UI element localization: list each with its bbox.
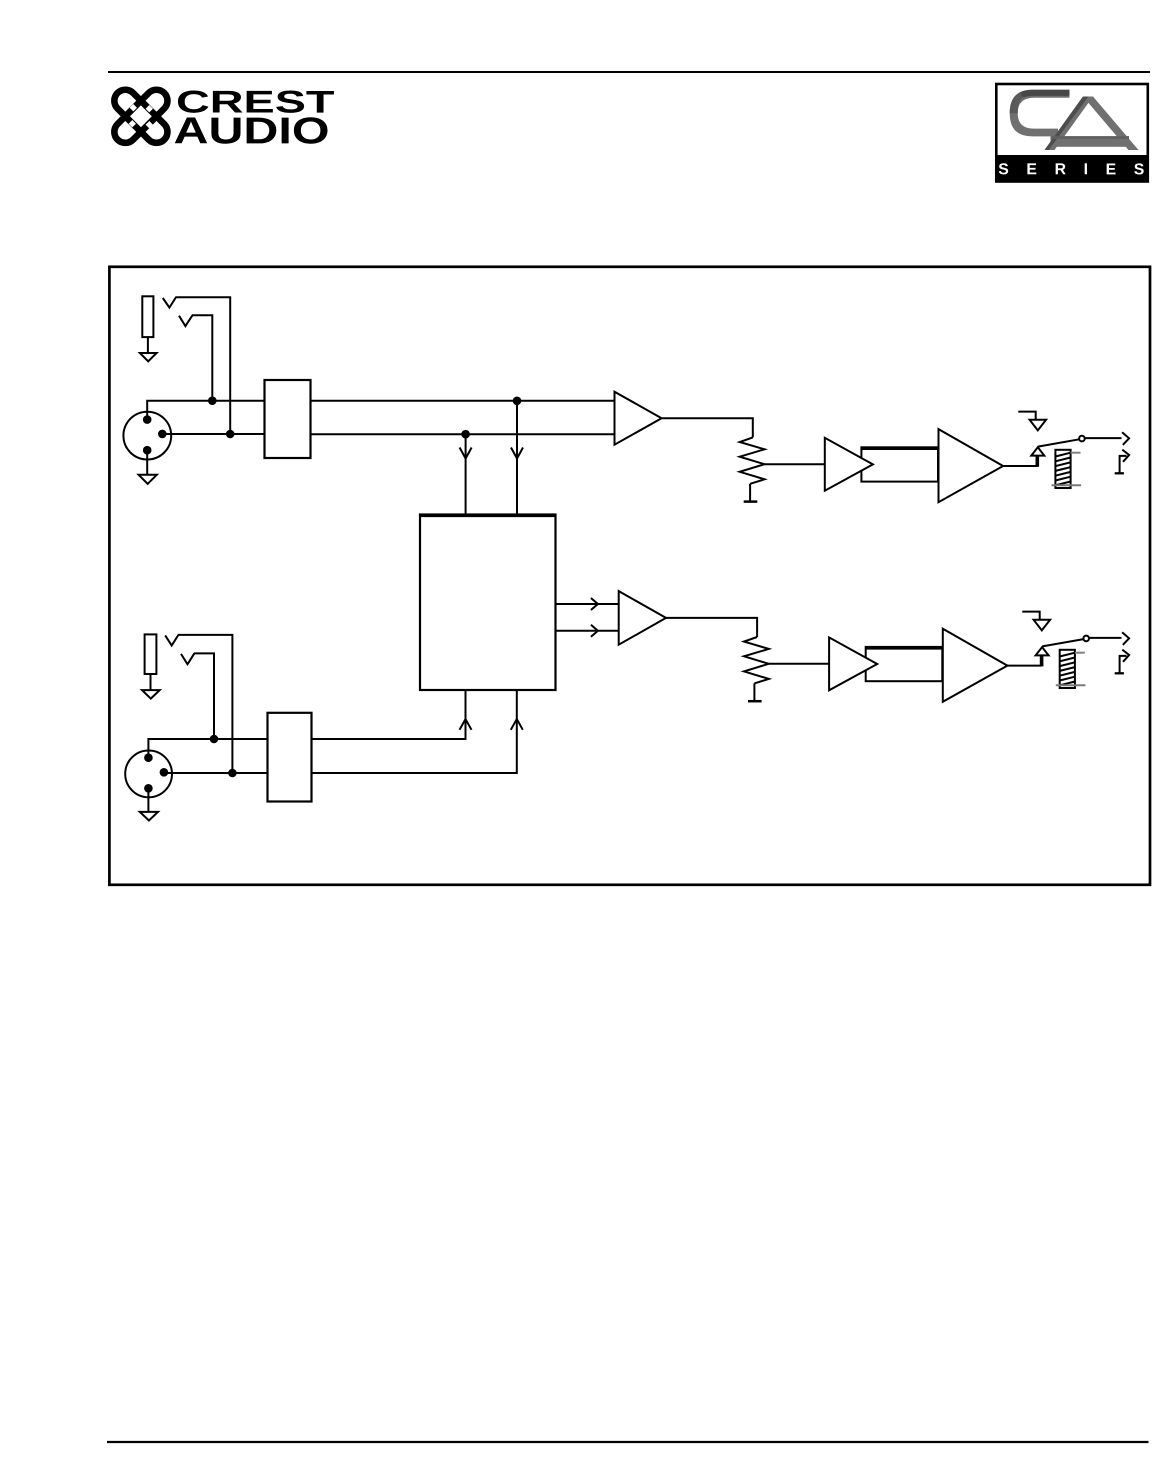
- badge border box: [996, 84, 1148, 182]
- header top rule: [108, 71, 1150, 73]
- wire switch to output: [1089, 637, 1122, 639]
- coil terminal bottom: [1052, 484, 1082, 486]
- CH2 buffer amp A5: [829, 637, 877, 690]
- wire ring contact to pin3 line: [192, 315, 212, 400]
- coil windings: [1060, 653, 1075, 686]
- R2 ground bar: [748, 700, 762, 703]
- arrowhead down: [511, 448, 523, 459]
- wire block to amp inverting: [311, 433, 615, 435]
- CH2 XLR ground: [140, 812, 158, 821]
- junction node: [513, 397, 522, 406]
- CH1 1/4 inch jack body J1: [142, 296, 153, 337]
- CH2 jack tip contact: [165, 635, 178, 645]
- CH1 XLR pin top: [143, 415, 152, 424]
- limiter top thick edge: [861, 447, 938, 450]
- CH1 jack ring contact: [179, 315, 193, 326]
- CH1 output arrow tip: [1122, 432, 1129, 445]
- wire block up to crossover: [312, 690, 517, 773]
- CH1 level potentiometer R1: [740, 437, 765, 483]
- arrowhead up: [460, 719, 472, 730]
- CH2 input amp A4: [619, 591, 666, 645]
- crossover top thick edge: [419, 514, 557, 517]
- output sleeve ground bar: [1115, 472, 1124, 474]
- arrowhead up: [511, 719, 523, 730]
- CH1 XLR pin right: [158, 430, 167, 439]
- CH1 input amp A1: [615, 392, 662, 445]
- switch contact circle: [1079, 436, 1085, 442]
- wire crossover out 2: [556, 630, 619, 632]
- wire ring contact to pin3 line: [194, 653, 214, 739]
- CA SERIES badge: [995, 84, 1149, 183]
- diagram outer border: [109, 267, 1150, 885]
- Crest Audio logo knot symbol: [110, 85, 172, 147]
- junction node: [228, 769, 237, 778]
- R1 ground stem: [749, 484, 751, 502]
- wire tip contact to pin2 line: [178, 635, 233, 773]
- badge black band: [995, 155, 1149, 183]
- wire wiper to buffer: [765, 463, 825, 465]
- CH1 jack stem wire: [147, 337, 149, 353]
- wire switch to output: [1085, 437, 1122, 439]
- coil terminal bottom: [1056, 684, 1086, 686]
- relay switch arm: [1038, 439, 1079, 446]
- svg-text:AUDIO: AUDIO: [173, 109, 329, 151]
- wire down to crossover block: [465, 434, 467, 514]
- wire wiper to buffer: [769, 663, 829, 665]
- wire amp out to level pot: [662, 418, 753, 437]
- CH2 jack ground: [142, 690, 160, 699]
- relay switch arm: [1042, 639, 1083, 646]
- CH1 output return arrow: [1122, 450, 1129, 462]
- CH2 limiter block: [866, 647, 943, 681]
- relay armature stem: [1036, 455, 1040, 466]
- badge CA letter C: [1010, 90, 1070, 137]
- wire crossover out 1: [556, 603, 619, 605]
- CH1 jack tip contact: [163, 298, 176, 308]
- CH2 output arrow tip: [1122, 632, 1129, 645]
- CH1 input block U1: [265, 380, 311, 458]
- badge CA letter A: [1045, 97, 1139, 151]
- wire XLR top pin to input block: [148, 739, 267, 758]
- output sleeve ground bar: [1115, 672, 1124, 674]
- wire tip contact to pin2 line: [175, 297, 230, 434]
- coil windings: [1055, 453, 1070, 486]
- wire XLR top pin to input block: [147, 401, 264, 420]
- CH1 XLR ground: [139, 475, 157, 484]
- CH2 jack ring contact: [181, 653, 194, 664]
- CH1 relay coil K1: [1055, 450, 1070, 488]
- CH1 buffer amp A2: [825, 438, 873, 491]
- junction node: [208, 396, 217, 405]
- CH2 jack stem wire: [150, 674, 152, 690]
- switch NC ground wire: [1022, 612, 1039, 620]
- wire XLR right pin to input block: [164, 772, 268, 774]
- junction node: [226, 430, 235, 439]
- wire XLR bottom pin to ground: [146, 450, 148, 475]
- CH2 XLR pin top: [144, 753, 153, 762]
- wire XLR bottom pin to ground: [147, 788, 149, 812]
- wire block up to crossover: [312, 690, 466, 739]
- arrowhead down: [460, 448, 472, 459]
- CH1 limiter block: [861, 447, 938, 481]
- junction node: [210, 735, 219, 744]
- limiter top thick edge: [866, 646, 943, 649]
- switch contact circle: [1083, 636, 1089, 642]
- CH2 XLR pin right: [160, 768, 169, 777]
- output sleeve wire: [1120, 656, 1127, 673]
- arrowhead right: [591, 598, 598, 610]
- CH2 1/4 inch jack body J2: [145, 634, 157, 674]
- CH2 input block U2: [268, 713, 312, 802]
- CH1 XLR connector body: [123, 412, 171, 460]
- arrowhead right: [591, 625, 598, 637]
- relay common terminal: [1031, 447, 1044, 455]
- CH1 jack ground: [140, 353, 157, 361]
- wire down to crossover block: [516, 401, 518, 515]
- relay armature stem: [1040, 655, 1044, 666]
- R2 ground stem: [753, 683, 755, 701]
- CH2 XLR pin bottom: [144, 784, 153, 793]
- CH1 power amp A3: [939, 429, 1004, 502]
- junction node: [461, 430, 470, 439]
- switch NC ground wire: [1018, 412, 1035, 420]
- wire amp out to level pot: [666, 618, 757, 637]
- wire block to amp noninverting: [311, 400, 615, 402]
- switch NC ground symbol: [1034, 620, 1051, 631]
- CH2 power amp A6: [943, 629, 1008, 702]
- CH1 XLR pin bottom: [143, 446, 152, 455]
- wire power amp to relay contact: [1003, 465, 1037, 467]
- coil terminal top: [1071, 452, 1081, 454]
- coil terminal top: [1075, 652, 1085, 654]
- switch NC ground symbol: [1030, 420, 1047, 431]
- output sleeve wire: [1120, 456, 1127, 473]
- relay common terminal: [1036, 647, 1049, 655]
- CH2 output return arrow: [1122, 650, 1129, 662]
- wire XLR right pin to input block: [162, 433, 264, 435]
- CH2 XLR connector body: [125, 751, 172, 798]
- footer rule: [107, 1441, 1149, 1443]
- wire power amp to relay contact: [1007, 665, 1041, 667]
- R1 ground bar: [744, 500, 758, 503]
- CH2 relay coil K2: [1060, 650, 1075, 688]
- CH2 level potentiometer R2: [744, 637, 769, 683]
- crossover block U3: [420, 515, 556, 691]
